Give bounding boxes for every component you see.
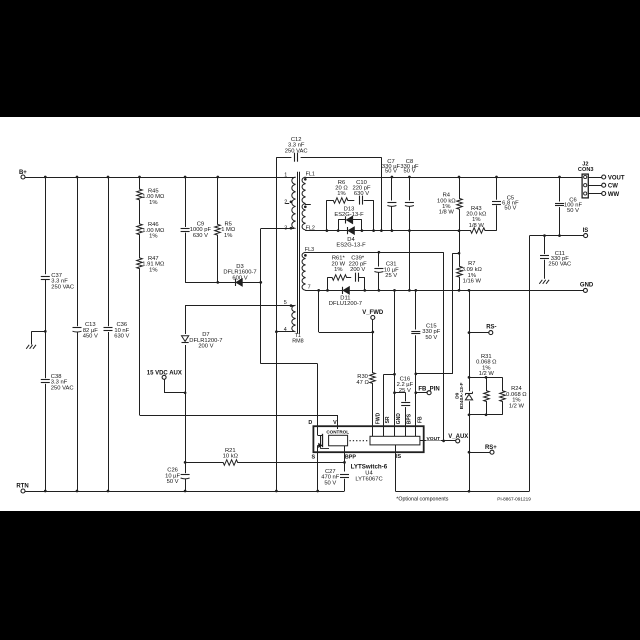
svg-text:B+: B+ [19, 170, 27, 176]
terminal B+ [21, 175, 25, 179]
wire V sense line [140, 415, 338, 417]
wire RS- stub [469, 332, 489, 334]
T1 winding FL3 [302, 252, 305, 290]
wire pin 4 [276, 331, 294, 333]
terminal 15 VDC AUX [162, 375, 166, 379]
capacitor C7 [387, 202, 396, 204]
wire FB divider stub [453, 253, 459, 255]
svg-text:VOUT: VOUT [608, 175, 625, 181]
resistor R30 [370, 332, 376, 424]
resistor R61 [328, 275, 352, 281]
capacitor C12 [294, 153, 296, 162]
wire into V pin [337, 415, 339, 429]
capacitor C6 [555, 203, 564, 205]
terminal RTN [21, 489, 25, 493]
terminal VOUT [602, 175, 606, 179]
wire C5 [496, 177, 498, 231]
wire VOUT stub [420, 440, 456, 442]
wire FB divider vertical [452, 253, 454, 374]
resistor R4 [457, 177, 463, 231]
wire IS bottom rail [395, 491, 529, 493]
svg-text:250 VAC: 250 VAC [285, 148, 308, 154]
svg-text:1%: 1% [149, 267, 157, 273]
capacitor C13 [73, 327, 82, 329]
capacitor C37 [41, 276, 50, 278]
wire BPP inside [344, 446, 346, 452]
pin SR [383, 429, 385, 436]
wire IS pin [395, 445, 397, 491]
svg-text:630 V: 630 V [193, 233, 208, 239]
terminal V_FWD [371, 316, 375, 320]
pin FWD [372, 429, 374, 436]
MOSFET inside U4 [317, 426, 319, 435]
wire C16 top [395, 392, 406, 394]
svg-text:FB_PIN: FB_PIN [418, 386, 439, 392]
capacitor C11 [540, 255, 549, 257]
resistor R47 [137, 247, 143, 281]
capacitor C8 [405, 202, 414, 204]
svg-text:GND: GND [396, 413, 402, 425]
terminal V_AUX [456, 439, 460, 443]
IC U4 LYTSwitch-6 outline [313, 426, 423, 452]
svg-text:5: 5 [284, 300, 287, 306]
pin FB [415, 374, 417, 436]
wire GND pin column [394, 290, 396, 429]
wire C9 column [185, 177, 187, 282]
wire snubber right [373, 200, 375, 231]
diode D3 [235, 279, 237, 286]
wire pin 5 [185, 305, 294, 307]
diode D11 [342, 287, 344, 294]
capacitor C10 [359, 196, 361, 205]
wire pin3 vertical [260, 229, 262, 364]
svg-text:1%: 1% [224, 233, 232, 239]
svg-text:D: D [308, 420, 312, 426]
svg-text:1/16 W: 1/16 W [463, 279, 482, 285]
svg-text:1%: 1% [337, 191, 345, 197]
wire D7/C26 column [185, 305, 187, 491]
wire C37/C38 column [45, 177, 47, 491]
svg-text:U4: U4 [365, 471, 373, 477]
wire RS+ stub [469, 452, 490, 454]
wire IS vertical [529, 236, 531, 492]
svg-text:250 VAC: 250 VAC [51, 385, 74, 391]
wire FL2 bottom [305, 229, 307, 232]
T1 bias winding 5-4 [292, 305, 296, 331]
svg-text:GND: GND [580, 283, 594, 289]
svg-text:SR: SR [385, 416, 391, 423]
svg-text:PI-8867-091219: PI-8867-091219 [497, 496, 531, 501]
ground C11 [539, 280, 542, 284]
svg-text:1/2 W: 1/2 W [509, 404, 525, 410]
wire 15VDC aux [164, 379, 166, 392]
svg-text:BPS: BPS [407, 413, 413, 424]
wire FWD pin [372, 424, 374, 429]
svg-text:50 V: 50 V [324, 480, 336, 486]
svg-text:2: 2 [284, 200, 287, 206]
wire pin 3 [261, 228, 294, 230]
svg-text:FWD: FWD [376, 412, 382, 424]
capacitor C38 [41, 379, 50, 381]
svg-text:25 V: 25 V [399, 388, 411, 394]
ground [26, 345, 29, 349]
wire R47 to V line [139, 280, 141, 415]
resistor R43 [459, 228, 497, 234]
svg-text:V_FWD: V_FWD [362, 310, 384, 316]
svg-text:630 V: 630 V [354, 191, 369, 197]
wire C15/FB column [415, 290, 417, 429]
wire C36 column [108, 177, 110, 491]
diode D4 [347, 227, 349, 234]
capacitor C27 [340, 474, 349, 476]
dotted link [350, 440, 370, 442]
svg-text:200 V: 200 V [198, 344, 213, 350]
svg-text:CW: CW [608, 184, 618, 190]
wire VOUT-sense vertical [443, 252, 445, 441]
svg-text:V: V [333, 420, 337, 426]
svg-text:10 kΩ: 10 kΩ [223, 454, 239, 460]
svg-text:250 VAC: 250 VAC [548, 261, 571, 267]
pin BPS [405, 429, 407, 436]
terminal RS- [489, 331, 493, 335]
diode D9 [465, 393, 472, 395]
wire ground tap [31, 331, 45, 333]
transformer T1 core [297, 172, 299, 334]
T1 primary winding 1-3 [292, 177, 296, 229]
svg-text:CON3: CON3 [578, 167, 594, 173]
wire R61 left [327, 277, 329, 290]
svg-text:IS: IS [396, 454, 401, 460]
svg-text:WW: WW [608, 192, 620, 198]
wire B+ rail [25, 177, 296, 179]
wire C39 right [364, 277, 366, 290]
svg-text:50 V: 50 V [167, 479, 179, 485]
svg-text:450 V: 450 V [83, 334, 98, 340]
svg-text:V_AUX: V_AUX [448, 434, 468, 440]
capacitor C9 [181, 228, 190, 230]
svg-text:BPP: BPP [345, 454, 356, 460]
wire BPP pin [344, 452, 346, 471]
svg-text:50 V: 50 V [504, 206, 516, 212]
wire FB node [416, 373, 453, 375]
wire R4-R7 [459, 231, 461, 254]
wire VOUT rail [305, 177, 582, 179]
wire SR tie [384, 374, 395, 376]
T1 secondary winding FL1/FL2 [302, 177, 305, 230]
resistor R7 [457, 253, 463, 290]
svg-text:LYT6067C: LYT6067C [355, 477, 382, 483]
wire C6 [559, 177, 561, 236]
terminal GND [583, 288, 587, 292]
wire to D pin [317, 364, 319, 429]
connector J2 CON3 [582, 174, 588, 198]
resistor R21 [185, 460, 344, 466]
svg-text:47 Ω: 47 Ω [356, 380, 369, 386]
wire FL3 top line [305, 252, 443, 254]
svg-text:630 V: 630 V [114, 334, 129, 340]
svg-text:1/8 W: 1/8 W [439, 210, 455, 216]
resistor R6 [327, 198, 354, 204]
wire D13 left [338, 220, 340, 231]
svg-text:FL1: FL1 [306, 172, 315, 178]
wire C12 left [276, 157, 291, 159]
svg-text:IS: IS [583, 228, 589, 234]
svg-text:1: 1 [284, 173, 287, 179]
svg-text:15 VDC AUX: 15 VDC AUX [147, 371, 182, 377]
svg-text:ES2G-13-F: ES2G-13-F [334, 212, 364, 218]
svg-text:FB: FB [418, 416, 424, 423]
svg-text:RM8: RM8 [292, 338, 303, 344]
wire clamp line [185, 282, 261, 284]
wire drain jog [261, 363, 318, 365]
top letterbox bar [0, 0, 640, 117]
svg-text:1%: 1% [149, 234, 157, 240]
wire C7 [391, 177, 393, 231]
capacitor C26 [181, 474, 190, 476]
wire GND rail [305, 290, 583, 292]
wire RTN rail [25, 491, 344, 493]
svg-text:DFLU1200-7: DFLU1200-7 [329, 301, 362, 307]
wire C8 [409, 177, 411, 290]
wire V_FWD stub [372, 320, 374, 332]
resistor R31 [484, 377, 490, 414]
wire D13 right [361, 220, 363, 231]
wire rectified node [305, 230, 459, 232]
CONTROL block [329, 435, 348, 446]
terminal WW [602, 192, 606, 196]
svg-text:1%: 1% [149, 200, 157, 206]
capacitor C31 [374, 268, 383, 270]
svg-text:200 V: 200 V [350, 267, 365, 273]
terminal IS [584, 234, 588, 238]
svg-text:RTN: RTN [16, 484, 28, 490]
capacitor C39 [355, 273, 357, 282]
capacitor C15 [411, 331, 420, 333]
wire C11 [544, 236, 546, 279]
wire FWD tap [318, 290, 320, 332]
svg-text:1/8 W: 1/8 W [469, 223, 485, 229]
wire C13 column [77, 177, 79, 491]
svg-text:50 V: 50 V [567, 208, 579, 214]
wire SR pin [383, 374, 385, 429]
terminal FB_PIN [427, 391, 431, 395]
svg-text:CONTROL: CONTROL [326, 430, 349, 435]
svg-text:VOUT: VOUT [427, 436, 441, 442]
tap stub FL1/FL2 [305, 204, 311, 206]
terminal CW [602, 183, 606, 187]
svg-text:25 V: 25 V [385, 273, 397, 279]
svg-text:50 V: 50 V [425, 335, 437, 341]
svg-text:4: 4 [284, 327, 287, 333]
wire C12-pin4-RTN vertical [276, 157, 278, 491]
wire snubber left [326, 200, 328, 231]
svg-text:1%: 1% [334, 267, 342, 273]
svg-text:*Optional components: *Optional components [396, 497, 448, 503]
wire BPS pin [405, 393, 407, 429]
wire sense bottom [469, 414, 503, 416]
resistor R5 [215, 177, 221, 282]
wire FL3 bottom [305, 289, 307, 291]
svg-text:RS-: RS- [486, 325, 496, 331]
svg-text:B340A-13-F: B340A-13-F [459, 382, 465, 409]
capacitor C5 [492, 201, 501, 203]
resistor R24 [500, 377, 506, 414]
svg-text:S: S [311, 454, 315, 460]
wire S pin [317, 452, 319, 491]
svg-text:3: 3 [284, 226, 287, 232]
svg-text:RS+: RS+ [485, 445, 497, 451]
wire sense top [469, 377, 503, 379]
svg-text:7: 7 [308, 284, 311, 290]
svg-text:LYTSwitch-6: LYTSwitch-6 [351, 463, 388, 470]
resistor R45 [137, 177, 143, 212]
resistor R46 [137, 212, 143, 247]
wire IS line [530, 235, 584, 237]
bottom letterbox bar [0, 511, 640, 640]
svg-text:600 V: 600 V [232, 275, 247, 281]
wire C31 [378, 252, 380, 290]
svg-text:50 V: 50 V [404, 169, 416, 175]
pin VOUT label [426, 435, 441, 440]
terminal RS+ [490, 450, 494, 454]
pin GND [394, 429, 396, 436]
wire FB_PIN stub [416, 392, 427, 394]
diode D13 [345, 216, 347, 223]
capacitor C36 [104, 327, 113, 329]
wire C12 right [301, 157, 382, 159]
svg-text:50 V: 50 V [385, 169, 397, 175]
capacitor C16 [401, 402, 410, 404]
diode D7 [182, 342, 189, 344]
svg-text:ES2G-13-F: ES2G-13-F [336, 243, 366, 249]
svg-text:250 VAC: 250 VAC [51, 284, 74, 290]
svg-text:1/2 W: 1/2 W [479, 371, 495, 377]
secondary controller block [370, 436, 420, 445]
wire sense vertical [469, 290, 471, 491]
